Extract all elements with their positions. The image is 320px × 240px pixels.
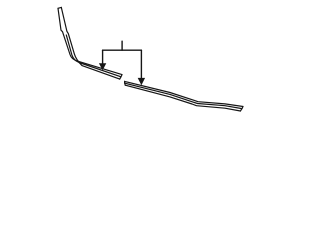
arrowhead right xyxy=(138,78,145,85)
molding piece 2 top edge xyxy=(125,81,243,106)
molding piece 1 middle edge xyxy=(66,35,121,77)
molding piece 2 end cap xyxy=(240,107,243,112)
molding piece 2 middle edge xyxy=(125,83,242,109)
molding piece 1 inner bottom edge xyxy=(61,7,119,79)
molding piece 1 end cap xyxy=(120,75,122,80)
molding piece 1 tip cap xyxy=(58,6,61,9)
molding piece 2 bottom edge xyxy=(125,85,240,111)
callout bracket horizontal xyxy=(103,49,142,51)
leader line left xyxy=(102,50,104,63)
callout tick xyxy=(121,41,123,50)
molding piece 2 start cap xyxy=(124,81,127,85)
molding piece 1 outer top edge xyxy=(58,8,122,74)
arrowhead left xyxy=(99,63,106,70)
leader line right xyxy=(140,50,142,78)
